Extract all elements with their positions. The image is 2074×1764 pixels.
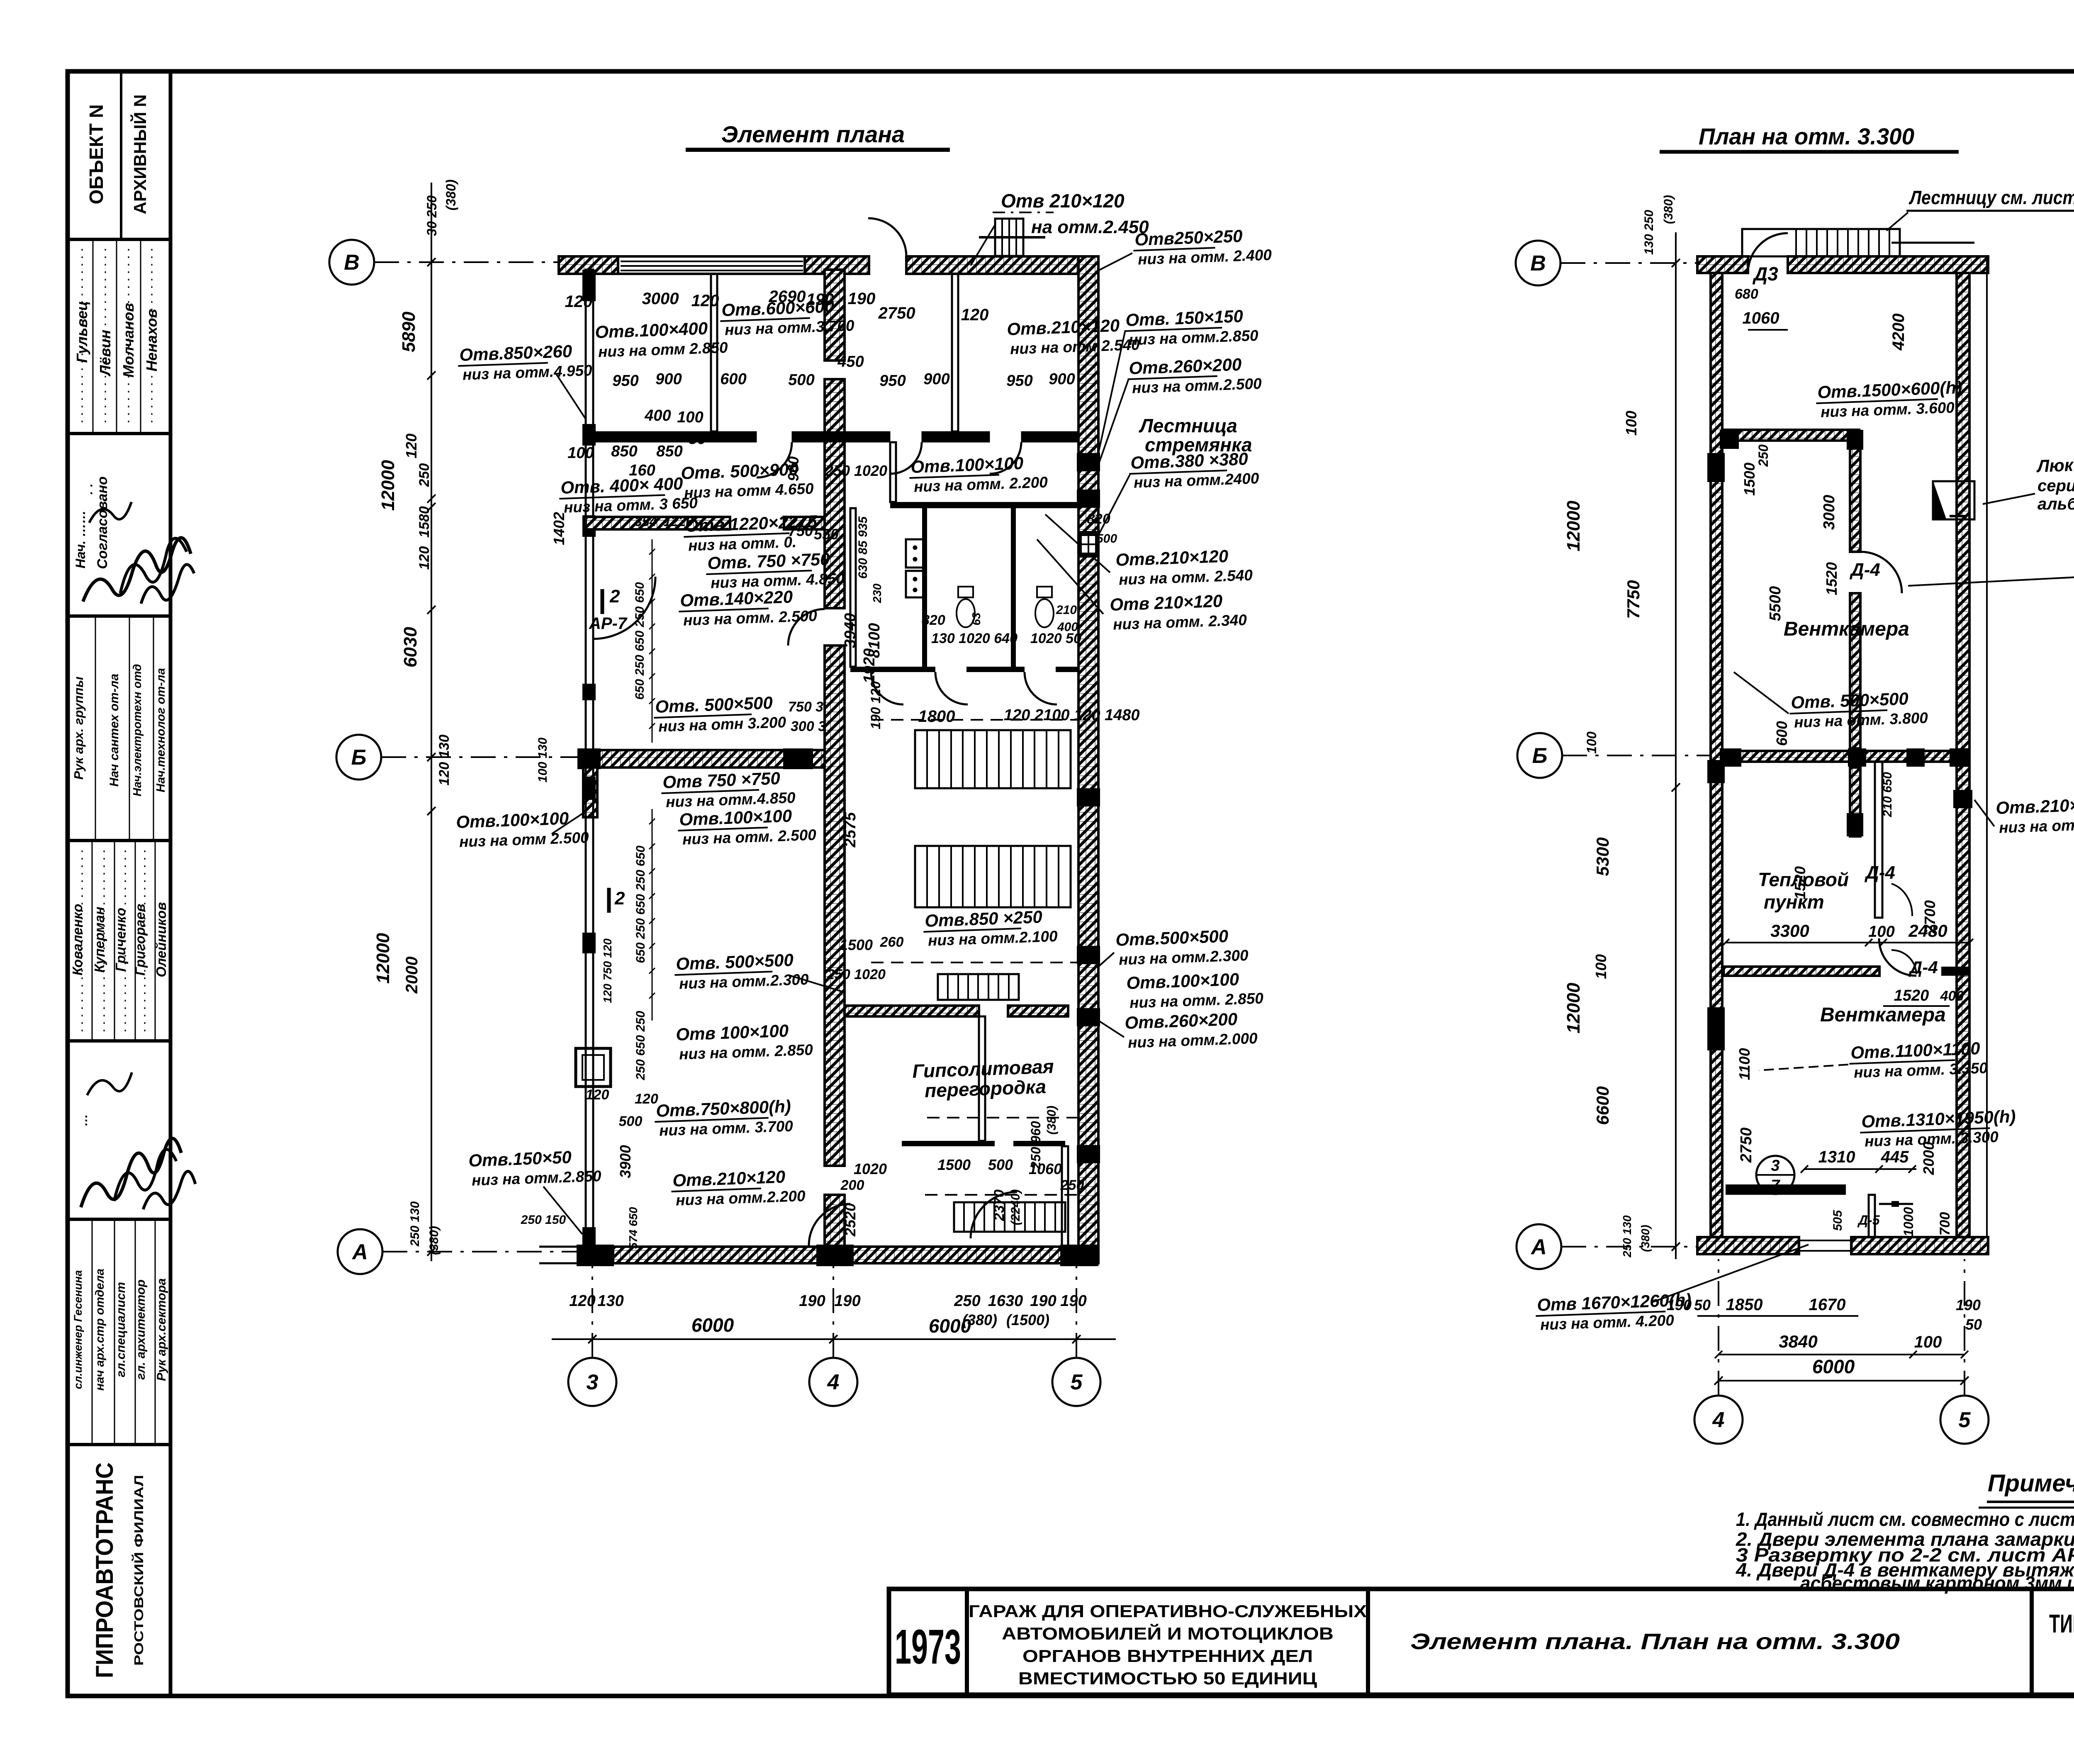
svg-text:Отв.100×100: Отв.100×100 bbox=[456, 809, 569, 832]
svg-text:Д-5: Д-5 bbox=[1857, 1213, 1880, 1228]
svg-text:2750: 2750 bbox=[1738, 1128, 1755, 1163]
svg-text:Отв. 500×900: Отв. 500×900 bbox=[681, 459, 799, 483]
svg-text:500: 500 bbox=[788, 371, 814, 389]
svg-text:Отв.210×120: Отв.210×120 bbox=[1007, 316, 1120, 339]
lower vent chamber south wall bbox=[1726, 1184, 1846, 1195]
Б axis wall (hatched) bbox=[586, 750, 825, 767]
toilet 2 bbox=[1037, 587, 1052, 597]
svg-text:Отв.260×200: Отв.260×200 bbox=[1129, 355, 1242, 378]
svg-text:Отв.260×200: Отв.260×200 bbox=[1125, 1009, 1238, 1033]
svg-text:Б: Б bbox=[351, 746, 367, 770]
room divider wall 2 (x=2295) bbox=[952, 274, 958, 431]
label Отв.750×750 (4.850) bbox=[706, 549, 845, 592]
svg-text:Нач. ……: Нач. …… bbox=[73, 510, 88, 568]
svg-text:6000: 6000 bbox=[691, 1314, 734, 1336]
svg-text:…: … bbox=[76, 1114, 90, 1126]
stamp divider 3 bbox=[68, 614, 170, 618]
svg-text:4: 4 bbox=[1712, 1408, 1725, 1432]
svg-text:Коваленко: Коваленко bbox=[70, 904, 85, 976]
svg-text:6600: 6600 bbox=[1593, 1086, 1612, 1125]
svg-text:445: 445 bbox=[1881, 1148, 1909, 1166]
svg-text:900: 900 bbox=[655, 370, 682, 388]
svg-text:АВТОМОБИЛЕЙ И МОТОЦИКЛОВ: АВТОМОБИЛЕЙ И МОТОЦИКЛОВ bbox=[1002, 1623, 1334, 1643]
svg-text:2370: 2370 bbox=[991, 1189, 1007, 1221]
door arc bottom center bbox=[809, 1204, 850, 1245]
svg-text:Отв 100×100: Отв 100×100 bbox=[676, 1021, 789, 1044]
svg-text:2480: 2480 bbox=[1908, 921, 1947, 940]
svg-text:63: 63 bbox=[970, 612, 983, 626]
svg-text:Лестница: Лестница bbox=[1139, 415, 1237, 436]
svg-text:Д-4: Д-4 bbox=[1864, 863, 1895, 883]
svg-text:Григораев: Григораев bbox=[132, 904, 148, 976]
right wall opening block y=2430 bbox=[1077, 1008, 1100, 1026]
svg-text:250: 250 bbox=[1060, 1177, 1084, 1193]
door Д-4 arc (y2330) bbox=[1879, 938, 1916, 976]
stamp box4: titles bbox=[95, 616, 96, 841]
partition x=2360 bbox=[979, 1016, 985, 1141]
label Отв.210×120 (3.900) bbox=[1996, 794, 2074, 836]
svg-text:Отв.500×500: Отв.500×500 bbox=[1115, 926, 1229, 950]
svg-text:Отв.100×100: Отв.100×100 bbox=[679, 806, 792, 829]
svg-text:В: В bbox=[344, 251, 360, 275]
label Отв.100×100 (2.200) bbox=[909, 453, 1048, 496]
svg-text:Лестницу см. листы марки КС: Лестницу см. листы марки КС bbox=[1908, 187, 2074, 208]
stamp divider 4 bbox=[68, 839, 170, 842]
partition y=2750 bbox=[902, 1141, 995, 1146]
svg-text:Нач сантех от-ла: Нач сантех от-ла bbox=[107, 674, 121, 787]
stamp column right divider bbox=[169, 71, 173, 1696]
label Отв.150×150 bbox=[468, 1146, 602, 1189]
svg-text:100: 100 bbox=[567, 444, 594, 462]
svg-text:630 85 935: 630 85 935 bbox=[856, 516, 870, 579]
central spine wall (hatched) bbox=[825, 270, 845, 361]
svg-text:альбом II: альбом II bbox=[2037, 495, 2074, 513]
stamp box7: titles bbox=[92, 1219, 93, 1445]
svg-text:серия1.135-1: серия1.135-1 bbox=[2037, 477, 2074, 495]
toilet 1 bbox=[958, 587, 973, 597]
WC west wall bbox=[850, 508, 856, 667]
svg-text:5500: 5500 bbox=[1767, 586, 1784, 621]
svg-text:гл.специалист: гл.специалист bbox=[114, 1282, 128, 1377]
label Отв.500×500 (2.300) bbox=[674, 950, 809, 992]
door arc top wall bbox=[868, 218, 906, 256]
stamp box5: names bbox=[92, 841, 93, 1041]
svg-text:(1500): (1500) bbox=[1006, 1311, 1049, 1328]
svg-text:2750: 2750 bbox=[878, 304, 915, 322]
svg-text:3: 3 bbox=[587, 1370, 599, 1394]
stamp divider 1 bbox=[68, 238, 170, 241]
svg-text:Элемент плана: Элемент плана bbox=[721, 121, 905, 147]
svg-text:Отв. 500×500: Отв. 500×500 bbox=[1791, 689, 1909, 712]
svg-text:5300: 5300 bbox=[1593, 837, 1612, 876]
svg-text:РОСТОВСКИЙ ФИЛИАЛ: РОСТОВСКИЙ ФИЛИАЛ bbox=[131, 1475, 146, 1666]
right plan bottom circles 4,5 bbox=[1694, 1396, 1743, 1444]
svg-text:5: 5 bbox=[1071, 1370, 1083, 1394]
label Отв.100×100 (2.850) bbox=[676, 1020, 813, 1063]
svg-text:120: 120 bbox=[586, 1087, 609, 1103]
label Отв.500×500 (3.200) bbox=[653, 692, 786, 735]
svg-text:(380): (380) bbox=[427, 1226, 441, 1255]
Б axis wall bbox=[1722, 751, 1969, 762]
label Отв 750×750 (4.850) lower bbox=[661, 768, 796, 811]
sink 2 bbox=[906, 571, 924, 597]
svg-text:250 150: 250 150 bbox=[521, 1213, 566, 1227]
svg-text:100: 100 bbox=[1868, 923, 1894, 940]
stamp box3: согласовано + signatures bbox=[73, 510, 88, 568]
WC stall door arcs bbox=[935, 672, 968, 704]
label Отв.500×900 bbox=[681, 459, 814, 502]
svg-text:120 750 120: 120 750 120 bbox=[601, 938, 614, 1003]
svg-text:Элемент плана. План на отм: Элемент плана. План на отм. 3.300 bbox=[1410, 1629, 1900, 1654]
svg-text:Отв.210×120: Отв.210×120 bbox=[1115, 546, 1229, 570]
svg-text:3900: 3900 bbox=[617, 1145, 634, 1178]
svg-text:12000: 12000 bbox=[378, 460, 398, 511]
leader to vent grille bbox=[971, 224, 996, 266]
door Д3 arc bbox=[1748, 233, 1788, 273]
label Отв.500×500 (3.800) bbox=[1789, 688, 1928, 731]
title block outline bbox=[889, 1589, 2074, 1695]
svg-text:1630: 1630 bbox=[988, 1292, 1023, 1310]
svg-text:190 120: 190 120 bbox=[868, 681, 883, 729]
dashed line y2694 bbox=[927, 1117, 1080, 1118]
left plan axis circle А bbox=[338, 1229, 382, 1274]
svg-text:(380): (380) bbox=[1662, 195, 1675, 224]
svg-text:450: 450 bbox=[837, 353, 864, 370]
door Д-5 bbox=[1879, 1203, 1913, 1205]
svg-text:План на отм. 3.300: План на отм. 3.300 bbox=[1699, 123, 1914, 149]
svg-text:(2240): (2240) bbox=[1009, 1189, 1022, 1226]
svg-text:12000: 12000 bbox=[1563, 500, 1584, 551]
svg-text:820: 820 bbox=[922, 612, 945, 628]
right wall opening block y=1180 bbox=[1077, 490, 1100, 508]
svg-text:Примечания:: Примечания: bbox=[1988, 1470, 2074, 1497]
title block divider x=3298 bbox=[1366, 1589, 1370, 1695]
svg-text:400: 400 bbox=[644, 407, 671, 424]
svg-text:900: 900 bbox=[1049, 370, 1075, 388]
svg-text:100: 100 bbox=[1592, 954, 1609, 979]
svg-text:250 960: 250 960 bbox=[1028, 1121, 1043, 1170]
svg-text:650 250 650 250 650: 650 250 650 250 650 bbox=[634, 845, 648, 963]
svg-text:354: 354 bbox=[635, 514, 657, 529]
svg-text:А: А bbox=[1530, 1235, 1547, 1259]
svg-text:100: 100 bbox=[1584, 731, 1599, 754]
WC extra dims bbox=[856, 516, 870, 579]
top vent grille symbol bbox=[995, 219, 1023, 256]
svg-text:ТИПОВОЙ ПРОЕКТ: ТИПОВОЙ ПРОЕКТ bbox=[2049, 1609, 2074, 1638]
right side labels column bbox=[1133, 225, 1272, 268]
svg-text:5890: 5890 bbox=[399, 312, 419, 352]
svg-text:сл.инженер Гесенина: сл.инженер Гесенина bbox=[72, 1270, 84, 1389]
stair S2 bbox=[915, 846, 1071, 907]
svg-text:(380): (380) bbox=[1045, 1106, 1059, 1135]
svg-text:120 2100 120 1480: 120 2100 120 1480 bbox=[1004, 707, 1140, 724]
svg-text:190: 190 bbox=[834, 1292, 860, 1310]
svg-text:1. Данный лист см. совместн: 1. Данный лист см. совместно с листом АР… bbox=[1736, 1508, 2074, 1530]
left exterior wall bbox=[586, 270, 593, 1249]
svg-text:2575: 2575 bbox=[842, 812, 859, 848]
section mark 2 lower bbox=[607, 888, 611, 913]
stamp box6: signatures bbox=[81, 1138, 181, 1207]
svg-text:2000: 2000 bbox=[403, 957, 421, 994]
svg-text:1060: 1060 bbox=[1743, 309, 1779, 327]
label Отв.210×120 room4 bbox=[1007, 315, 1140, 358]
svg-text:850: 850 bbox=[656, 443, 682, 460]
svg-text:50: 50 bbox=[1694, 1296, 1711, 1313]
svg-text:2: 2 bbox=[614, 888, 625, 909]
svg-text:Отв.850 ×250: Отв.850 ×250 bbox=[925, 907, 1043, 931]
right wall opening block y=2280 bbox=[1077, 946, 1100, 964]
svg-text:400: 400 bbox=[1940, 988, 1964, 1004]
bottom wall bbox=[613, 1247, 1078, 1263]
svg-text:Д-4: Д-4 bbox=[1908, 958, 1938, 977]
svg-text:асбестовым картоном 3мм и кро: асбестовым картоном 3мм и кровельной ста… bbox=[1800, 1572, 2074, 1594]
svg-text:190: 190 bbox=[848, 290, 876, 308]
svg-text:1100: 1100 bbox=[1736, 1048, 1753, 1080]
svg-text:120: 120 bbox=[961, 306, 989, 324]
right wall opening block y=1092 bbox=[1077, 453, 1100, 471]
svg-text:Отв 210×120: Отв 210×120 bbox=[1001, 190, 1125, 212]
svg-text:950: 950 bbox=[879, 372, 906, 390]
svg-text:Отв.600×600: Отв.600×600 bbox=[721, 297, 835, 320]
right plan right wall bbox=[1957, 273, 1969, 1237]
left plan top wall (hatched) bbox=[559, 256, 618, 274]
svg-text:120: 120 bbox=[403, 434, 420, 458]
svg-text:130: 130 bbox=[597, 1292, 623, 1310]
svg-text:250 130: 250 130 bbox=[408, 1201, 422, 1247]
stamp box8: ГИПРОАВТОТРАНС bbox=[91, 1462, 118, 1678]
svg-text:нач арх.стр отдела: нач арх.стр отдела bbox=[93, 1269, 107, 1391]
svg-text:Отв. 500×500: Отв. 500×500 bbox=[676, 950, 794, 974]
right plan axis circle А bbox=[1517, 1224, 1561, 1269]
door arcs wall A bbox=[757, 442, 792, 478]
right wall opening block y=2760 bbox=[1077, 1145, 1100, 1163]
svg-text:3: 3 bbox=[1771, 1157, 1779, 1174]
svg-text:· ·: · · bbox=[85, 484, 98, 495]
svg-text:1973: 1973 bbox=[895, 1620, 961, 1674]
gypsum partition (hatched) bbox=[845, 1006, 979, 1016]
svg-text:1800: 1800 bbox=[918, 707, 955, 726]
stamp divider 2 bbox=[68, 432, 170, 435]
door arc left wall room bbox=[593, 577, 655, 639]
svg-text:1850: 1850 bbox=[1726, 1296, 1763, 1314]
svg-text:30 250: 30 250 bbox=[424, 195, 439, 236]
svg-text:7: 7 bbox=[1771, 1177, 1780, 1194]
label Отв.100×400 bbox=[595, 318, 728, 361]
WC north wall bbox=[890, 502, 1078, 508]
svg-text:Рук арх.сектора: Рук арх.сектора bbox=[155, 1278, 168, 1381]
svg-text:500: 500 bbox=[619, 1113, 643, 1129]
svg-text:1670: 1670 bbox=[1809, 1296, 1846, 1314]
svg-text:ВМЕСТИМОСТЬЮ 50 ЕДИНИЦ: ВМЕСТИМОСТЬЮ 50 ЕДИНИЦ bbox=[1018, 1669, 1317, 1688]
svg-text:900: 900 bbox=[923, 370, 949, 388]
svg-text:950: 950 bbox=[1006, 372, 1032, 390]
svg-text:Б: Б bbox=[1532, 744, 1548, 768]
svg-text:120: 120 bbox=[635, 1091, 658, 1107]
svg-text:120: 120 bbox=[569, 1292, 595, 1310]
WC partitions bbox=[922, 508, 927, 672]
svg-text:500: 500 bbox=[1096, 532, 1117, 546]
stamp box2: names bbox=[93, 239, 94, 434]
section circle 3/7 bbox=[1756, 1156, 1794, 1194]
svg-text:550: 550 bbox=[814, 526, 839, 543]
svg-text:1580: 1580 bbox=[416, 506, 432, 538]
label Отв.850×250 (2.100) bbox=[923, 906, 1058, 949]
partition x=2560 bbox=[1062, 1146, 1068, 1247]
svg-text:130 1020 640: 130 1020 640 bbox=[931, 631, 1018, 646]
right exterior wall (hatched) bbox=[1078, 256, 1098, 1263]
room divider wall 1 (x=1714) bbox=[711, 274, 717, 431]
label Отв.1310×1950 bbox=[1860, 1106, 2017, 1150]
interior wall A (y=1040) bbox=[593, 431, 757, 442]
right plan axis circle В bbox=[1516, 241, 1560, 285]
label Отв.210×120 (2.200) bbox=[671, 1166, 806, 1209]
svg-text:190: 190 bbox=[1667, 1296, 1692, 1313]
label Отв.100×100 (2.500) bbox=[677, 805, 817, 848]
тепловой пункт partition bbox=[1875, 762, 1882, 918]
svg-text:230: 230 bbox=[871, 583, 884, 603]
svg-text:(380): (380) bbox=[1639, 1225, 1652, 1252]
svg-text:6030: 6030 bbox=[400, 627, 421, 668]
left plan bottom axis circles 3,4,5 bbox=[568, 1358, 616, 1406]
right plan left dim chain bbox=[1675, 232, 1677, 1259]
svg-text:4: 4 bbox=[827, 1370, 840, 1394]
svg-text:Отв.100×400: Отв.100×400 bbox=[595, 319, 708, 342]
svg-text:120: 120 bbox=[691, 292, 719, 310]
люк symbol bbox=[1933, 481, 1974, 519]
svg-text:Венткамера: Венткамера bbox=[1784, 618, 1909, 640]
svg-text:гл. архитектор: гл. архитектор bbox=[134, 1279, 148, 1380]
svg-text:210: 210 bbox=[1056, 603, 1077, 617]
svg-text:Нач.электротехн отд: Нач.электротехн отд bbox=[131, 664, 144, 796]
svg-text:190: 190 bbox=[1030, 1292, 1056, 1310]
svg-text:Отв. 150×150: Отв. 150×150 bbox=[1125, 306, 1244, 330]
svg-text:Д-4: Д-4 bbox=[1849, 560, 1880, 580]
svg-text:3940: 3940 bbox=[842, 613, 859, 648]
label Отв.400×400 bbox=[559, 473, 698, 517]
WC connector wall bbox=[890, 442, 896, 502]
svg-text:250 130: 250 130 bbox=[1621, 1215, 1633, 1258]
label Отв.1100×1100 bbox=[1849, 1038, 1988, 1082]
stamp divider 7 bbox=[68, 1443, 170, 1446]
svg-text:Нач.технолог от-ла: Нач.технолог от-ла bbox=[154, 668, 168, 792]
svg-text:3000: 3000 bbox=[1821, 495, 1838, 530]
door arc spine gap bbox=[788, 609, 825, 646]
svg-text:820: 820 bbox=[1087, 511, 1110, 527]
svg-text:ГИПРОАВТОТРАНС: ГИПРОАВТОТРАНС bbox=[91, 1462, 118, 1678]
svg-text:Рук арх. группы: Рук арх. группы bbox=[71, 677, 86, 780]
upper 650/250 dim chain bbox=[652, 539, 653, 743]
svg-text:3000: 3000 bbox=[642, 290, 679, 308]
svg-text:Отв.100×100: Отв.100×100 bbox=[910, 453, 1024, 477]
svg-text:2000: 2000 bbox=[1920, 1142, 1937, 1175]
svg-text:3300: 3300 bbox=[1770, 921, 1809, 940]
title block divider x=2331 bbox=[965, 1589, 969, 1695]
svg-text:120 130: 120 130 bbox=[436, 734, 452, 785]
section mark 2/АР-7 upper bbox=[601, 589, 604, 614]
svg-text:1500: 1500 bbox=[1741, 463, 1758, 496]
label Отв.140×220 bbox=[678, 586, 818, 629]
left plan axis circle Б bbox=[336, 735, 381, 780]
svg-text:Отв.100×100: Отв.100×100 bbox=[1126, 970, 1239, 993]
svg-text:1310: 1310 bbox=[1818, 1148, 1855, 1166]
svg-text:Люк Л5,5: Люк Л5,5 bbox=[2036, 454, 2074, 476]
right plan axis circle Б bbox=[1517, 733, 1562, 778]
svg-text:Отв 210×120: Отв 210×120 bbox=[1110, 591, 1223, 614]
svg-text:6000: 6000 bbox=[1812, 1356, 1855, 1377]
svg-text:А: А bbox=[351, 1240, 368, 1264]
svg-text:190: 190 bbox=[1956, 1296, 1981, 1313]
svg-text:100: 100 bbox=[677, 409, 703, 426]
svg-text:210 650: 210 650 bbox=[1881, 772, 1894, 817]
svg-text:ГАРАЖ ДЛЯ ОПЕРАТИВНО-СЛУЖЕБНЫ: ГАРАЖ ДЛЯ ОПЕРАТИВНО-СЛУЖЕБНЫХ bbox=[969, 1601, 1367, 1621]
svg-text:100: 100 bbox=[1914, 1333, 1942, 1351]
svg-text:12000: 12000 bbox=[373, 933, 393, 984]
label Отв.600×600 bbox=[720, 296, 855, 339]
svg-text:АРХИВНЫЙ N: АРХИВНЫЙ N bbox=[130, 95, 150, 214]
wall y=2330 (hatched) bbox=[1723, 967, 1879, 976]
svg-text:120: 120 bbox=[565, 292, 593, 311]
label Отв.100×100 (2.500) outside bbox=[456, 808, 589, 850]
door arc bottom right bbox=[971, 1192, 1017, 1238]
right plan top wall bbox=[1697, 256, 1748, 273]
interior wall B (y=1246, hatched) bbox=[586, 517, 730, 529]
svg-text:260: 260 bbox=[880, 934, 904, 950]
door Д-4 arc (vent) bbox=[1860, 552, 1902, 593]
svg-text:Гриченко: Гриченко bbox=[113, 908, 128, 972]
left plan bottom dimension chain 6000/6000 bbox=[552, 1338, 1116, 1340]
stair S1 bbox=[915, 730, 1071, 788]
svg-text:3840: 3840 bbox=[1779, 1332, 1817, 1351]
svg-text:АР-7: АР-7 bbox=[589, 614, 628, 633]
svg-text:600: 600 bbox=[1773, 721, 1790, 746]
svg-text:Отв. 500×500: Отв. 500×500 bbox=[655, 693, 773, 716]
svg-text:1402: 1402 bbox=[550, 512, 567, 545]
svg-text:100: 100 bbox=[1623, 411, 1640, 436]
svg-text:Отв.210×120: Отв.210×120 bbox=[672, 1167, 786, 1190]
svg-text:В: В bbox=[1530, 251, 1546, 275]
svg-text:505: 505 bbox=[1831, 1210, 1845, 1231]
svg-text:130 250: 130 250 bbox=[1642, 210, 1656, 255]
svg-text:250: 250 bbox=[954, 1292, 980, 1310]
svg-text:Отв 750 ×750: Отв 750 ×750 bbox=[662, 768, 781, 792]
svg-text:750: 750 bbox=[788, 522, 813, 539]
svg-text:650 250 650 250 650: 650 250 650 250 650 bbox=[633, 582, 647, 700]
svg-text:(380): (380) bbox=[443, 180, 458, 211]
svg-text:2: 2 bbox=[609, 586, 620, 607]
svg-text:1500: 1500 bbox=[937, 1156, 971, 1173]
svg-text:200: 200 bbox=[840, 1177, 864, 1193]
svg-text:перегородка: перегородка bbox=[924, 1076, 1047, 1101]
svg-text:1020: 1020 bbox=[854, 1160, 887, 1177]
svg-text:12000: 12000 bbox=[1563, 982, 1584, 1033]
label Отв 1670×1260 bbox=[1535, 1290, 1692, 1333]
svg-text:Отв.140×220: Отв.140×220 bbox=[680, 587, 793, 610]
svg-text:Д3: Д3 bbox=[1752, 263, 1778, 285]
svg-text:680: 680 bbox=[1735, 286, 1758, 302]
svg-text:ОРГАНОВ ВНУТРЕННИХ ДЕЛ: ОРГАНОВ ВНУТРЕННИХ ДЕЛ bbox=[1022, 1646, 1313, 1666]
svg-text:574 650: 574 650 bbox=[627, 1207, 640, 1249]
svg-text:50: 50 bbox=[689, 430, 706, 448]
svg-text:120: 120 bbox=[416, 546, 432, 570]
label люк bbox=[2036, 454, 2074, 476]
svg-text:190: 190 bbox=[1060, 1292, 1086, 1310]
right plan top stair bbox=[1742, 229, 1900, 256]
svg-text:4200: 4200 bbox=[1889, 314, 1908, 351]
label Гипсолитовая перегородка bbox=[912, 1055, 1055, 1102]
svg-text:2520: 2520 bbox=[842, 1203, 859, 1237]
WC south wall bbox=[850, 667, 935, 672]
right wall opening block y=1900 bbox=[1077, 788, 1100, 806]
